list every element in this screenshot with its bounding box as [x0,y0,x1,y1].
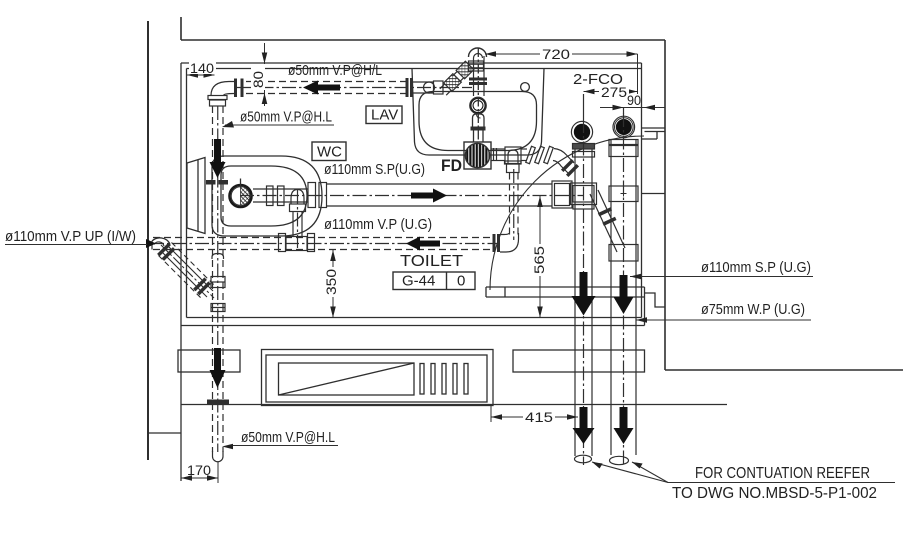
svg-text:TO DWG NO.MBSD-5-P1-002: TO DWG NO.MBSD-5-P1-002 [672,485,877,502]
svg-text:720: 720 [542,46,570,62]
svg-text:ø75mm W.P (U.G): ø75mm W.P (U.G) [701,301,805,318]
svg-text:ø50mm V.P@H/L: ø50mm V.P@H/L [288,62,382,79]
svg-text:ø110mm S.P (U.G): ø110mm S.P (U.G) [701,259,811,276]
svg-text:ø50mm V.P@H.L: ø50mm V.P@H.L [240,109,332,126]
svg-text:ø110mm S.P(U.G): ø110mm S.P(U.G) [324,161,425,178]
svg-text:FOR CONTUATION REEFER: FOR CONTUATION REEFER [695,465,870,482]
svg-text:140: 140 [190,60,214,76]
svg-text:ø110mm V.P (U.G): ø110mm V.P (U.G) [324,216,432,233]
svg-text:ø50mm V.P@H.L: ø50mm V.P@H.L [241,429,335,446]
svg-text:80: 80 [250,71,266,88]
svg-text:170: 170 [187,462,211,478]
svg-text:275: 275 [601,84,627,100]
svg-text:350: 350 [323,269,339,295]
svg-text:WC: WC [317,144,342,161]
svg-text:TOILET: TOILET [400,253,463,270]
svg-text:G-44: G-44 [402,273,435,290]
svg-text:LAV: LAV [371,107,398,124]
svg-text:415: 415 [525,409,553,425]
svg-text:565: 565 [531,246,547,274]
svg-text:0: 0 [457,273,465,290]
svg-text:ø110mm V.P UP (I/W): ø110mm V.P UP (I/W) [5,228,136,245]
svg-text:90: 90 [627,92,641,108]
svg-text:FD: FD [441,156,462,175]
